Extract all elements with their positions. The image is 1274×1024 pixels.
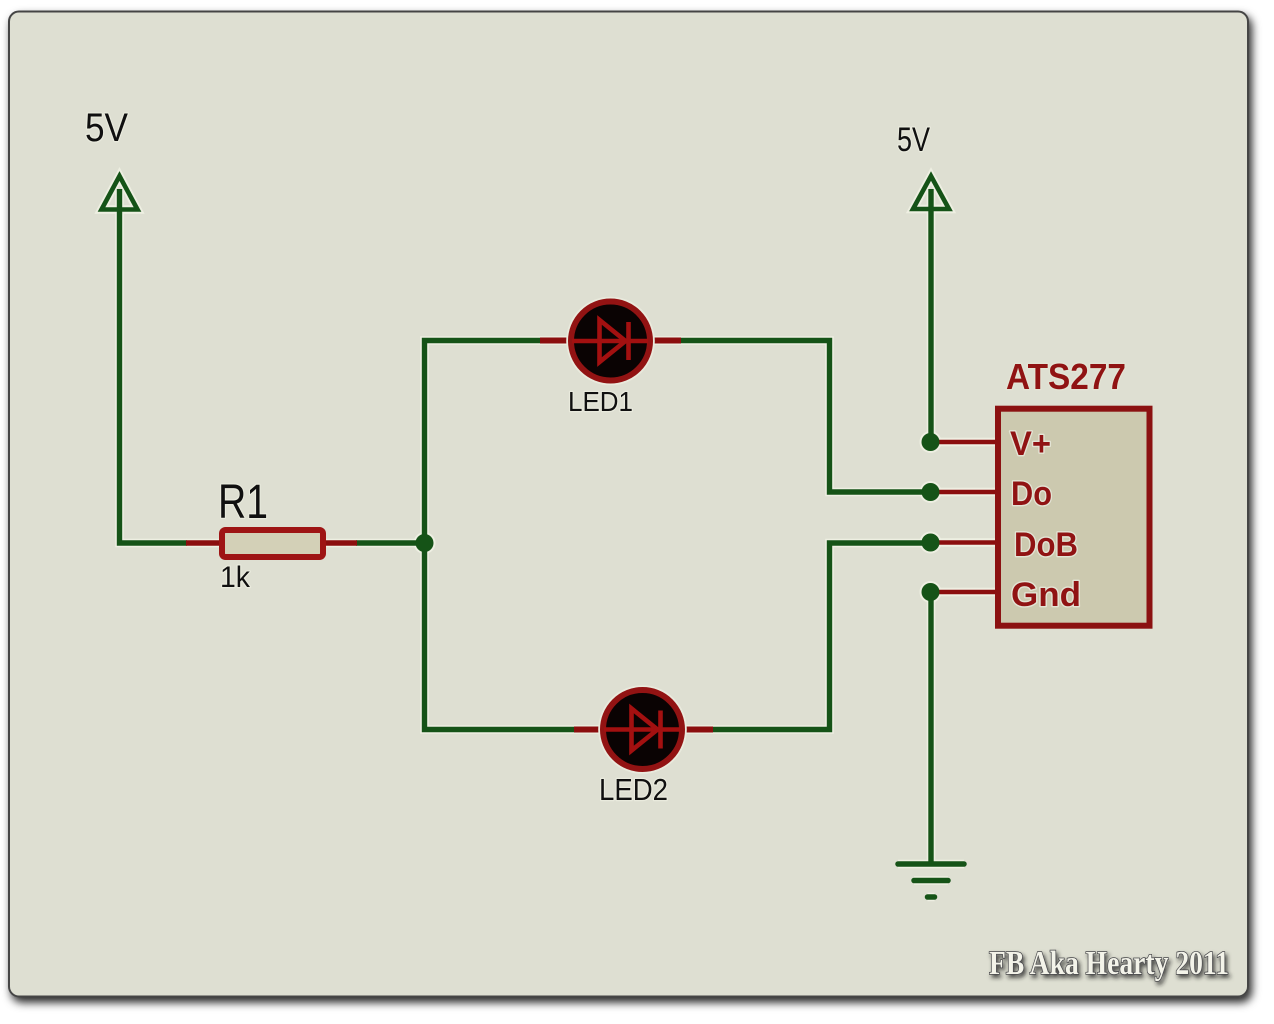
svg-text:DoB: DoB: [1014, 526, 1078, 564]
svg-text:R1: R1: [218, 476, 268, 529]
svg-text:5V: 5V: [85, 106, 128, 150]
svg-text:FB Aka Hearty 2011: FB Aka Hearty 2011: [989, 945, 1229, 982]
svg-text:Do: Do: [1011, 475, 1052, 513]
svg-text:V+: V+: [1010, 425, 1051, 463]
svg-text:5V: 5V: [897, 121, 930, 159]
svg-text:ATS277: ATS277: [1006, 356, 1126, 397]
svg-text:Gnd: Gnd: [1011, 576, 1081, 614]
svg-text:LED1: LED1: [568, 386, 633, 417]
svg-text:LED2: LED2: [599, 772, 668, 807]
svg-text:1k: 1k: [220, 561, 251, 594]
